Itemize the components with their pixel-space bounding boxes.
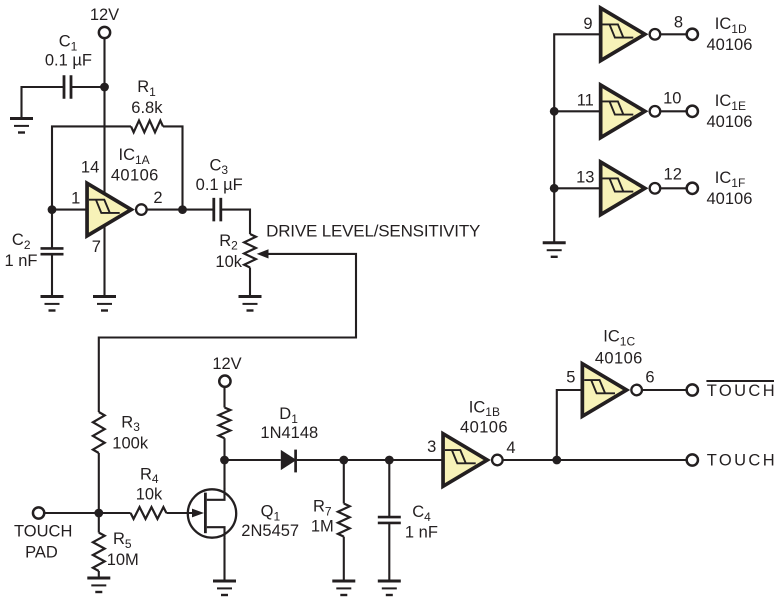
wire 12V to drain resistor [223,388,225,408]
svg-text:R3: R3 [121,413,140,434]
svg-text:12V: 12V [90,6,119,24]
ground (R2) [239,297,262,311]
wire branch up to IC1C input [557,390,584,460]
IC1D output terminal [687,29,698,40]
wire R2 wiper to sensitivity bus [99,254,356,412]
svg-text:PAD: PAD [25,544,58,562]
wire touch pad to R4 [44,512,131,514]
svg-text:7: 7 [92,238,101,256]
wire R1 right lead and pin-2 drop [163,126,183,209]
svg-text:10: 10 [663,90,681,108]
svg-text:C1: C1 [59,33,78,54]
wire R2 bottom to ground [249,268,251,297]
ground (C1) [10,119,33,133]
potentiometer R2 body [244,234,256,268]
svg-text:IC1A: IC1A [119,146,150,167]
svg-text:IC1D: IC1D [715,15,747,36]
op-amp IC1E (40106 Schmitt inverter) [601,85,661,138]
svg-text:5: 5 [566,369,575,387]
svg-text:C2: C2 [12,231,31,252]
resistor R3 [93,412,105,453]
svg-text:12V: 12V [212,355,241,373]
svg-text:TOUCH: TOUCH [14,523,72,541]
svg-text:100k: 100k [112,434,149,452]
ground (C2) [41,297,64,311]
svg-text:14: 14 [81,158,99,176]
resistor R5 [93,533,105,571]
svg-text:D1: D1 [279,405,298,426]
ground (R7) [332,581,355,595]
svg-text:8: 8 [674,14,683,32]
op-amp IC1C (40106 Schmitt inverter) [582,364,642,417]
svg-text:IC1F: IC1F [715,169,746,190]
svg-text:0.1 µF: 0.1 µF [196,176,243,194]
wire C2 top lead [51,210,53,248]
wire IC1C output to TOUCH-bar terminal [643,389,687,391]
wire D1 cathode to IC1B input [297,459,445,461]
svg-text:11: 11 [577,92,594,110]
op-amp IC1D (40106 Schmitt inverter) [601,8,661,61]
wire pin2 node to C3 [183,209,215,211]
svg-text:10k: 10k [136,485,163,503]
op-amp IC1B (40106 Schmitt inverter) [443,434,503,487]
wire bus to IC1F input [554,187,602,189]
wire R7 top lead [343,460,345,504]
wire 12V rail down to IC1A pin 14 [103,38,105,195]
wire Q1 source down to ground [223,538,225,581]
resistor R4 [131,507,167,519]
wire drain node to D1 anode [225,459,281,461]
IC1E output terminal [687,106,698,117]
node C4 junction [385,456,394,465]
capacitor C1 [64,75,71,99]
svg-text:Q1: Q1 [261,503,281,524]
resistor R7 [338,504,350,537]
wire C2 bottom lead to ground [51,255,53,297]
wire R4 to Q1 gate [166,512,194,514]
svg-text:R2: R2 [219,232,238,253]
wire R5 top lead [98,513,100,533]
svg-text:IC1E: IC1E [715,92,746,113]
svg-text:1: 1 [71,190,80,208]
svg-text:IC1B: IC1B [469,398,500,419]
capacitor C2 [41,248,64,254]
ground (spare-gate bus) [543,243,566,257]
svg-text:3: 3 [427,438,436,456]
svg-text:C4: C4 [412,503,431,524]
svg-text:1 nF: 1 nF [4,252,37,270]
wire Q1 drain up [223,460,225,489]
svg-text:40106: 40106 [707,36,753,54]
overline for TOUCH-bar [706,380,774,382]
resistor R1 [131,121,163,133]
svg-text:R7: R7 [313,498,332,519]
op-amp IC1F (40106 Schmitt inverter) [601,162,661,215]
wire IC1E output to terminal [661,110,687,112]
transistor Q1 body (2N5457 JFET) [188,488,236,539]
node gate divider junction [94,509,103,518]
ground (C4) [378,581,401,595]
svg-text:1N4148: 1N4148 [260,424,318,442]
svg-text:R1: R1 [137,78,156,99]
capacitor C3 [214,198,221,222]
svg-text:6: 6 [645,369,654,387]
svg-text:TOUCH: TOUCH [707,382,777,400]
node pin 1 junction [48,205,57,214]
svg-text:IC1C: IC1C [603,328,635,349]
node TOUCH branch junction [552,456,561,465]
wire pin 1 input [52,209,89,211]
node R7 junction [339,456,348,465]
svg-text:13: 13 [576,169,594,187]
wire C4 to ground [388,523,390,582]
svg-text:40106: 40106 [707,190,753,208]
TOUCH PAD input terminal [33,507,44,518]
svg-text:R4: R4 [140,465,159,486]
Q1 gate arrow [192,509,204,518]
node bus/IC1F junction [550,184,559,193]
svg-text:2: 2 [153,189,162,207]
wire C3 to R2 top corner [220,210,250,234]
wire bus to IC1E input [554,110,602,112]
TOUCH output terminal [687,454,698,465]
wire R3 to gate node [98,453,100,513]
ground (Q1 source) [213,581,236,595]
svg-text:R5: R5 [113,530,132,551]
svg-text:1M: 1M [311,518,334,536]
IC1F output terminal [687,183,698,194]
svg-text:10M: 10M [107,551,139,569]
diode D1 (1N4148) [281,450,297,473]
node bus/IC1E junction [550,107,559,116]
svg-text:9: 9 [583,15,592,33]
TOUCH-bar output terminal [687,384,698,395]
12V supply terminal (top) [99,27,110,38]
node pin 2 junction [178,205,187,214]
wire R5 to ground [98,571,100,578]
ground (IC1A pin 7) [93,297,116,311]
svg-text:40106: 40106 [595,349,643,367]
wire spare-gate input bus to IC1D [554,34,602,243]
node junction C1/12V [100,83,109,92]
ground (R5) [87,578,110,592]
wire C4 top lead [388,460,390,518]
svg-text:0.1 µF: 0.1 µF [45,52,92,70]
wire R1 left lead and pin-1 drop [52,126,131,209]
op-amp IC1A (40106 Schmitt inverter) [87,183,147,236]
svg-text:4: 4 [506,439,515,457]
wire IC1D output to terminal [661,33,687,35]
svg-text:10k: 10k [215,253,242,271]
svg-text:40106: 40106 [460,419,508,437]
capacitor C4 [378,517,401,523]
svg-text:C3: C3 [209,156,228,177]
resistor (drain, unlabeled) [219,408,231,439]
svg-text:1 nF: 1 nF [405,524,438,542]
wire drain resistor to node [223,438,225,460]
wire IC1F output to terminal [661,187,687,189]
wire pin 7 to ground [103,225,105,297]
wire IC1B output to TOUCH terminal [503,459,687,461]
svg-text:TOUCH: TOUCH [707,451,777,469]
wire C1 left plate to ground [22,87,65,119]
svg-text:2N5457: 2N5457 [241,522,299,540]
wire C1 right plate to 12V rail [71,86,105,88]
12V supply terminal (drain) [219,376,230,387]
svg-text:40106: 40106 [111,166,159,184]
svg-text:DRIVE LEVEL/SENSITIVITY: DRIVE LEVEL/SENSITIVITY [266,221,480,240]
svg-text:6.8k: 6.8k [131,99,163,117]
wire R7 to ground [343,537,345,581]
node drain junction [220,456,229,465]
wire pin 2 output [147,209,182,211]
svg-text:40106: 40106 [707,113,753,131]
potentiometer R2 wiper arrow [257,249,269,258]
svg-text:12: 12 [664,166,682,184]
